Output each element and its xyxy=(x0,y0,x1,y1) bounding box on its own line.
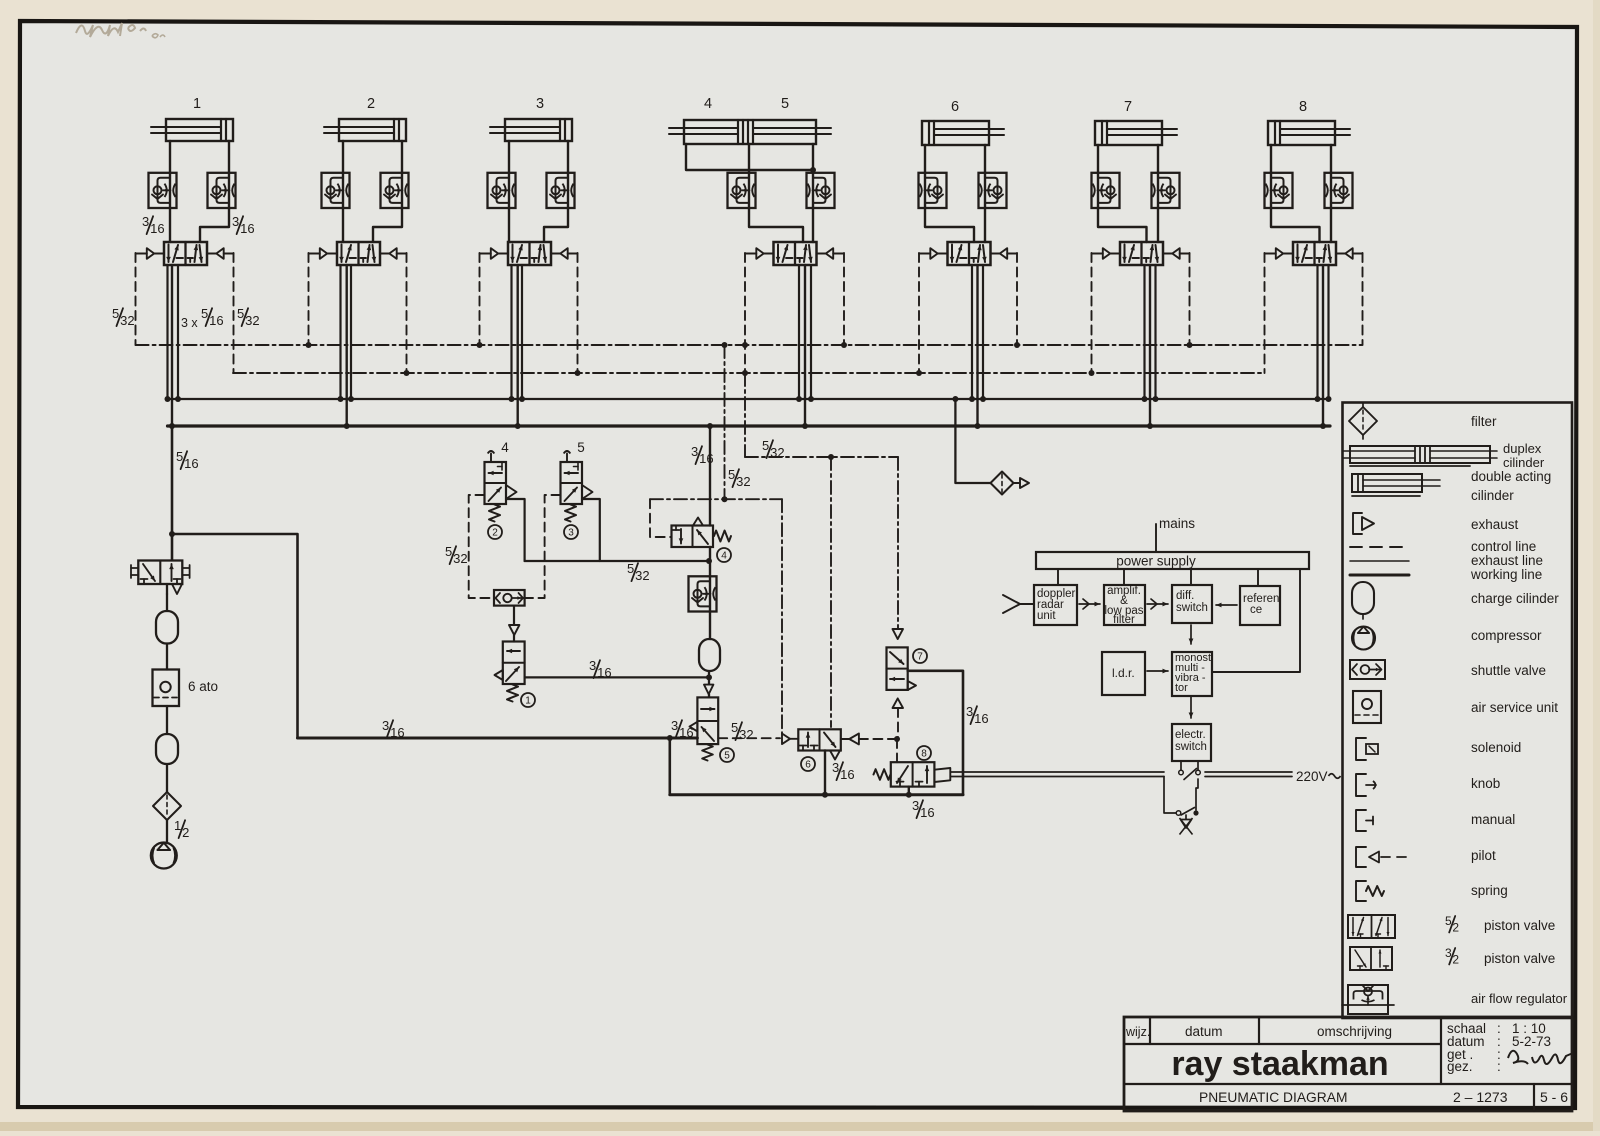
charge cylinder lower xyxy=(156,734,178,764)
svg-text:8: 8 xyxy=(1299,99,1307,115)
wire cylinder 8 right port xyxy=(1330,145,1332,242)
pilot line 5/32 to valve 4 region xyxy=(724,345,726,499)
legend exhaust xyxy=(1353,513,1362,534)
wire cylinder 1 left port xyxy=(169,141,171,242)
svg-text:16: 16 xyxy=(840,767,854,782)
svg-text:double acting: double acting xyxy=(1471,469,1551,484)
valve 3 port lines to bus xyxy=(510,265,512,399)
svg-text:datum: datum xyxy=(1185,1024,1223,1039)
wire main supply riser 5/16 xyxy=(171,426,174,560)
svg-text:5-2-73: 5-2-73 xyxy=(1512,1034,1551,1049)
svg-text:3 x: 3 x xyxy=(181,316,198,330)
svg-text:unit: unit xyxy=(1037,610,1056,622)
svg-text:power supply: power supply xyxy=(1116,554,1196,569)
svg-text:6: 6 xyxy=(951,99,959,115)
wire cylinder 6 right port xyxy=(984,145,986,242)
svg-text:5: 5 xyxy=(201,306,208,321)
legend manual xyxy=(1356,810,1366,831)
svg-text:gez.: gez. xyxy=(1447,1059,1473,1074)
wire duplex centre port xyxy=(749,144,803,242)
solenoid on valve 8 xyxy=(934,768,950,782)
svg-text:switch: switch xyxy=(1176,602,1208,614)
svg-text:electr.: electr. xyxy=(1175,729,1206,741)
l.d.r. unit xyxy=(1102,652,1145,695)
svg-text:2: 2 xyxy=(1452,921,1459,935)
valve 1 port lines to bus xyxy=(166,265,168,399)
svg-text:exhaust: exhaust xyxy=(1471,517,1519,532)
loop bottom working line xyxy=(668,738,671,795)
wire valve 1 output 3/16 xyxy=(525,676,709,678)
svg-text:220V: 220V xyxy=(1296,769,1328,784)
svg-text:16: 16 xyxy=(679,725,693,740)
svg-text:5: 5 xyxy=(728,467,735,482)
svg-text:16: 16 xyxy=(699,451,713,466)
svg-text:8: 8 xyxy=(921,749,927,760)
svg-text:filter: filter xyxy=(1471,414,1497,429)
svg-text:32: 32 xyxy=(739,727,753,742)
svg-text:mains: mains xyxy=(1159,516,1195,531)
svg-text:1: 1 xyxy=(193,96,201,112)
svg-text:3: 3 xyxy=(671,718,678,733)
svg-text:filter: filter xyxy=(1113,614,1135,626)
electric switch xyxy=(1172,724,1211,761)
svg-text:5: 5 xyxy=(445,544,452,559)
svg-text:3: 3 xyxy=(691,444,698,459)
svg-text:5: 5 xyxy=(112,306,119,321)
svg-text:air service unit: air service unit xyxy=(1471,700,1558,715)
svg-text:2 – 1273: 2 – 1273 xyxy=(1453,1089,1508,1105)
svg-text:2: 2 xyxy=(182,825,189,840)
doppler radar unit xyxy=(1034,585,1077,625)
svg-text:4: 4 xyxy=(704,96,712,112)
legend control line xyxy=(1350,546,1409,548)
svg-text:piston valve: piston valve xyxy=(1484,951,1555,966)
solenoid valve 8 xyxy=(891,762,935,786)
wire cylinder 2 right port xyxy=(373,141,402,242)
svg-text:3: 3 xyxy=(966,704,973,719)
control line bus 2 (5/32 dash-dot) xyxy=(233,372,1265,374)
wire supply branch to 3/16 line xyxy=(172,534,298,738)
legend air service unit xyxy=(1353,691,1381,723)
svg-text:control line: control line xyxy=(1471,539,1536,554)
svg-text:pilot: pilot xyxy=(1471,848,1496,863)
duplex cylinder housing lines xyxy=(686,144,813,170)
charge cylinder mid xyxy=(699,639,720,671)
amplifier low pass filter xyxy=(1104,585,1145,625)
control line bus 1 (5/32 dash-dot) xyxy=(136,344,1362,346)
svg-text:3: 3 xyxy=(832,760,839,775)
wire to filter xyxy=(166,764,168,792)
pilot line dash-dot to valve 4 and valve 6 xyxy=(650,498,782,500)
designator 3 xyxy=(564,525,578,539)
spring right of valve 4 xyxy=(714,531,731,542)
svg-text:5: 5 xyxy=(577,440,585,455)
pilot dash-dot x898 to valve 7 xyxy=(897,457,899,629)
title block row lines xyxy=(1124,1043,1441,1045)
svg-text:charge cilinder: charge cilinder xyxy=(1471,591,1559,606)
valve 8 port lines to bus xyxy=(1316,265,1318,399)
svg-text:5: 5 xyxy=(781,96,789,112)
flow regulator 7a xyxy=(1092,173,1120,208)
5/2 piston valve unit 1 xyxy=(164,242,207,265)
svg-text:cilinder: cilinder xyxy=(1503,455,1545,470)
wire cylinder 6 left port xyxy=(925,145,974,242)
svg-text:working line: working line xyxy=(1470,567,1542,582)
pilot line valve 6 right xyxy=(918,253,920,373)
monostable multivibrator xyxy=(1172,652,1212,696)
reference xyxy=(1240,586,1280,625)
designator 6 xyxy=(801,757,815,771)
legend box xyxy=(1343,403,1573,1019)
svg-text:16: 16 xyxy=(150,221,164,236)
svg-text:manual: manual xyxy=(1471,812,1515,827)
svg-text:2: 2 xyxy=(367,96,375,112)
legend 5/2 piston valve xyxy=(1348,915,1395,938)
air service unit 6 ato xyxy=(153,670,180,707)
arrow reference to diff switch xyxy=(1216,604,1237,606)
svg-text:32: 32 xyxy=(770,445,784,460)
legend working line xyxy=(1350,574,1409,577)
svg-text:32: 32 xyxy=(245,313,259,328)
svg-text:cilinder: cilinder xyxy=(1471,488,1514,503)
arrow multivibrator to electric switch xyxy=(1190,696,1192,718)
legend solenoid xyxy=(1356,738,1366,760)
wire valve 3 output xyxy=(582,499,600,561)
flow regulator 6b xyxy=(979,173,1007,208)
svg-text:16: 16 xyxy=(920,805,934,820)
5/2 piston valve unit 3 xyxy=(508,242,551,265)
antenna xyxy=(1003,595,1020,613)
svg-text:ce: ce xyxy=(1250,604,1262,616)
legend air flow regulator xyxy=(1348,985,1388,1014)
arrow amplifier to diff switch xyxy=(1147,603,1168,605)
wire valve 8 output xyxy=(908,787,910,795)
svg-text:solenoid: solenoid xyxy=(1471,740,1521,755)
legend exhaust line xyxy=(1350,560,1409,562)
svg-text:switch: switch xyxy=(1175,741,1207,753)
svg-text:6 ato: 6 ato xyxy=(188,679,218,694)
wire regulator to charge cylinder mid xyxy=(709,547,711,639)
designator 7 xyxy=(913,649,927,663)
5/2 piston valve unit 6 xyxy=(948,242,991,265)
wire cylinder 8 left port xyxy=(1271,145,1320,242)
wire 5/32 collector to main riser xyxy=(525,560,709,562)
flow regulator 8a xyxy=(1265,173,1293,208)
svg-text:16: 16 xyxy=(240,221,254,236)
signature xyxy=(1508,1051,1573,1064)
legend knob xyxy=(1356,774,1366,796)
filter mid xyxy=(991,472,1014,495)
pilot dash-dot x831 to valve 6 top xyxy=(830,457,832,727)
5/2 piston valve unit 8 xyxy=(1293,242,1336,265)
svg-text:duplex: duplex xyxy=(1503,441,1542,456)
svg-text::: : xyxy=(1497,1059,1501,1074)
wire cylinder 1 right port xyxy=(200,141,229,242)
exhaust bus line xyxy=(168,398,1329,400)
wire duplex right port xyxy=(812,144,814,242)
svg-text:tor: tor xyxy=(1175,682,1188,694)
svg-text:5: 5 xyxy=(731,720,738,735)
svg-text:3: 3 xyxy=(912,798,919,813)
svg-text:knob: knob xyxy=(1471,776,1500,791)
svg-text:1: 1 xyxy=(174,818,181,833)
pilot line valve 3 dashed xyxy=(525,495,561,598)
legend spring xyxy=(1356,881,1366,901)
compressor xyxy=(151,843,177,869)
pilot dash-dot distribution y457 xyxy=(744,373,746,457)
designator 1 xyxy=(521,693,535,707)
designator 4 xyxy=(717,548,731,562)
title block outer xyxy=(1124,1017,1572,1111)
sequence valve 5 xyxy=(697,697,718,744)
flow regulator 2b xyxy=(381,173,409,208)
pilot line valve 1 right xyxy=(135,253,137,345)
flow regulator 7b xyxy=(1152,173,1180,208)
svg-text:3: 3 xyxy=(536,96,544,112)
designator 2 xyxy=(488,525,502,539)
svg-text:5: 5 xyxy=(762,438,769,453)
wire to air service unit xyxy=(166,644,168,670)
svg-text:16: 16 xyxy=(974,711,988,726)
svg-text:3: 3 xyxy=(382,718,389,733)
legend duplex cilinder xyxy=(1350,446,1490,463)
spring below valve 2 xyxy=(489,505,500,522)
svg-text:32: 32 xyxy=(736,474,750,489)
valve 2 port lines to bus xyxy=(339,265,341,399)
svg-text:ray staakman: ray staakman xyxy=(1171,1045,1388,1083)
pilot line valve 4/5 right xyxy=(843,253,845,345)
legend double acting cilinder xyxy=(1352,474,1422,492)
5/2 piston valve unit 7 xyxy=(1120,242,1163,265)
wire charge cylinder to valve 5 xyxy=(708,671,710,684)
spring left of valve 8 xyxy=(874,769,891,780)
control valve 6 xyxy=(798,729,841,750)
svg-text:2: 2 xyxy=(492,528,498,539)
interlock valve 7 xyxy=(893,629,904,639)
valve 4/5 port lines to bus xyxy=(798,265,800,399)
wire cylinder 3 right port xyxy=(544,141,568,242)
svg-text:1: 1 xyxy=(525,696,531,707)
svg-text:PNEUMATIC DIAGRAM: PNEUMATIC DIAGRAM xyxy=(1199,1090,1347,1105)
svg-text:2: 2 xyxy=(1452,953,1459,967)
spring below valve 3 xyxy=(565,505,576,522)
svg-text:shuttle valve: shuttle valve xyxy=(1471,663,1546,678)
wire power supply to multivibrator xyxy=(1212,569,1300,672)
shuttle valve xyxy=(494,590,525,606)
svg-text:air flow regulator: air flow regulator xyxy=(1471,991,1568,1006)
svg-text:5: 5 xyxy=(627,561,634,576)
legend shuttle valve xyxy=(1350,660,1385,679)
valve 6 port lines to bus xyxy=(971,265,973,399)
svg-text:32: 32 xyxy=(120,313,134,328)
pencil handwriting top-left xyxy=(76,23,165,38)
pilot line valve 2 right xyxy=(308,253,310,345)
legend 3/2 piston valve xyxy=(1350,947,1392,970)
svg-text:5: 5 xyxy=(176,449,183,464)
exhaust below supply valve xyxy=(172,584,182,594)
flow regulator 2a xyxy=(322,173,350,208)
flow regulator 6a xyxy=(919,173,947,208)
svg-text:5: 5 xyxy=(724,751,730,762)
horn symbol xyxy=(1185,815,1187,819)
legend charge cilinder xyxy=(1352,582,1374,614)
svg-text:16: 16 xyxy=(390,725,404,740)
svg-text:32: 32 xyxy=(453,551,467,566)
designator 8 xyxy=(917,746,931,760)
switch contacts to 220V xyxy=(1180,761,1182,770)
arrow diff switch to multivibrator xyxy=(1190,625,1192,644)
svg-text:wijz.: wijz. xyxy=(1125,1025,1150,1039)
wire cylinder 7 right port xyxy=(1157,145,1159,242)
spring below valve 5 xyxy=(702,745,713,761)
wire valve 6 output xyxy=(824,751,826,795)
wire supply valve to charge cylinder xyxy=(166,594,168,611)
svg-text:7: 7 xyxy=(917,652,923,663)
arrow doppler to amplifier xyxy=(1079,603,1100,605)
svg-text:omschrijving: omschrijving xyxy=(1317,1024,1392,1039)
flow regulator 45a xyxy=(728,173,756,208)
diff switch xyxy=(1172,585,1212,623)
pilot line valve 3 right xyxy=(479,253,481,345)
svg-text:16: 16 xyxy=(184,456,198,471)
air flow regulator mid xyxy=(689,576,717,611)
svg-text:l.d.r.: l.d.r. xyxy=(1112,666,1135,680)
flow regulator 3a xyxy=(488,173,516,208)
svg-text:16: 16 xyxy=(209,313,223,328)
mains lead xyxy=(1155,524,1157,552)
svg-text:7: 7 xyxy=(1124,99,1132,115)
pilot line dash-dot x782 xyxy=(781,499,783,733)
svg-text:16: 16 xyxy=(597,665,611,680)
spring below valve 1 xyxy=(507,685,518,702)
lamp loop xyxy=(1164,777,1176,814)
wire shuttle to valve 1 xyxy=(513,606,515,625)
svg-text:3: 3 xyxy=(142,214,149,229)
electric wires 220V to valve 8 xyxy=(950,771,1164,773)
pilot line valve 4/5 left xyxy=(744,253,746,373)
legend pilot xyxy=(1356,847,1366,867)
exhaust below valve 6 xyxy=(830,751,840,760)
pilot line valve 8 right xyxy=(1264,253,1266,373)
wire to compressor xyxy=(166,820,168,843)
designator 5 xyxy=(720,748,734,762)
svg-text:spring: spring xyxy=(1471,883,1508,898)
power supply xyxy=(1036,552,1309,569)
svg-text:exhaust line: exhaust line xyxy=(1471,553,1543,568)
wire 3/16 riser from working bus xyxy=(709,426,711,526)
supply shut-off valve 3/2 xyxy=(138,561,182,585)
pilot valve 6 right lead xyxy=(841,738,850,740)
svg-text:3: 3 xyxy=(589,658,596,673)
charge cylinder upper xyxy=(156,611,178,644)
5/2 piston valve unit 2 xyxy=(337,242,380,265)
flow regulator 1a xyxy=(149,173,177,208)
svg-text:4: 4 xyxy=(501,440,509,455)
filter (supply) xyxy=(153,792,181,820)
svg-text:compressor: compressor xyxy=(1471,628,1542,643)
pilot line valve 2 dashed xyxy=(469,495,494,598)
wire bus to filter xyxy=(955,399,990,483)
wire valve 7 to loop xyxy=(908,671,963,795)
svg-text:5: 5 xyxy=(237,306,244,321)
svg-text:32: 32 xyxy=(635,568,649,583)
svg-text:3: 3 xyxy=(568,528,574,539)
wire cylinder 7 left port xyxy=(1098,145,1147,242)
legend compressor xyxy=(1352,627,1375,650)
svg-text:4: 4 xyxy=(721,551,727,562)
wire cylinder 2 left port xyxy=(342,141,344,242)
svg-text:3: 3 xyxy=(232,214,239,229)
power supply drop wires xyxy=(1057,569,1059,585)
pilot line valve 5 to valve 6 (5/32) xyxy=(718,737,780,739)
wire cylinder 3 left port xyxy=(508,141,510,242)
flow regulator 8b xyxy=(1325,173,1353,208)
wire valve 2 output xyxy=(506,499,525,561)
working line 3/16 horizontal xyxy=(298,737,698,740)
flow regulator 45b xyxy=(807,173,835,208)
pilot line valve 7 right xyxy=(1091,253,1093,373)
svg-text:6: 6 xyxy=(805,760,811,771)
5/2 piston valve unit 4/5 xyxy=(774,242,817,265)
flow regulator 1b xyxy=(208,173,236,208)
flow regulator 3b xyxy=(547,173,575,208)
working bus line 5/16 xyxy=(168,424,1331,427)
wire to charge cylinder lower xyxy=(166,706,168,734)
sequence valve 1 xyxy=(503,642,525,685)
valve 7 port lines to bus xyxy=(1143,265,1145,399)
svg-text:piston valve: piston valve xyxy=(1484,918,1555,933)
220V wires right xyxy=(1205,771,1292,773)
arrow ldr to multivibrator xyxy=(1147,670,1168,672)
pilot below valve 7 xyxy=(893,698,904,708)
svg-text:diff.: diff. xyxy=(1176,590,1194,602)
relief valve 4 xyxy=(672,526,714,548)
legend filter xyxy=(1349,407,1377,435)
svg-text:5 - 6: 5 - 6 xyxy=(1540,1089,1568,1105)
